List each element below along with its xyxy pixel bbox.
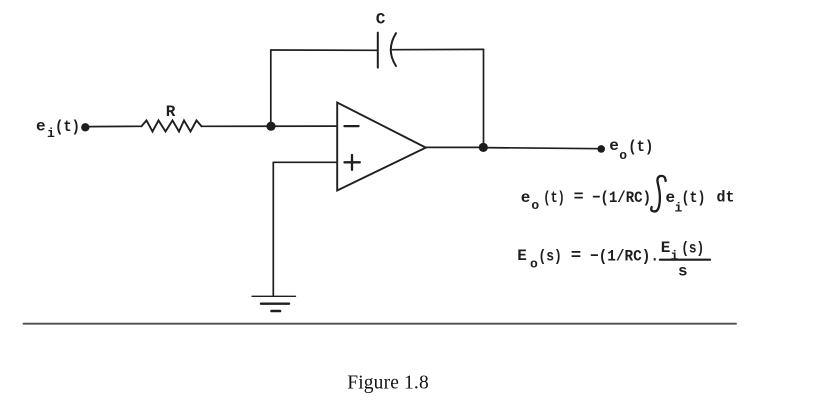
horizontal separator rule xyxy=(24,323,737,325)
svg-text:i: i xyxy=(671,248,679,263)
svg-text:−(1/RC): −(1/RC) xyxy=(592,189,651,207)
svg-text:dt: dt xyxy=(717,189,735,207)
capacitor C1 right plate (curved) xyxy=(391,33,396,66)
svg-text:R: R xyxy=(166,103,176,121)
svg-text:C: C xyxy=(376,11,386,29)
op-amp U1 inverting input marker (minus) xyxy=(345,125,359,127)
op-amp U1 non-inverting input marker (plus) xyxy=(345,155,360,170)
wire: feedback top rail to capacitor xyxy=(271,49,378,51)
wire: input terminal to resistor xyxy=(88,125,142,127)
svg-text:o: o xyxy=(619,148,627,163)
svg-text:=: = xyxy=(574,188,584,206)
svg-text:=: = xyxy=(571,247,582,265)
svg-text:(t): (t) xyxy=(55,118,80,136)
svg-text:s: s xyxy=(678,262,688,280)
equation 1: e_o(t) = -(1/RC) integral of e_i(t) dt xyxy=(521,176,735,215)
node: output terminal e_o xyxy=(597,145,605,153)
wire: non-inverting input to ground branch xyxy=(273,161,337,163)
svg-text:(s): (s) xyxy=(538,247,562,265)
wire: junction up to feedback branch xyxy=(270,50,272,126)
wire: output node to output terminal e_o xyxy=(484,148,601,149)
wire: resistor to op-amp inverting input, through junction xyxy=(202,125,338,127)
svg-text:E: E xyxy=(661,239,671,257)
svg-text:(s): (s) xyxy=(681,239,704,257)
caption: Figure 1.8 xyxy=(347,372,429,393)
svg-text:(t): (t) xyxy=(628,138,653,156)
wire: ground branch down xyxy=(272,162,274,296)
equation 2: E_o(s) = -(1/RC) . E_i(s)/s xyxy=(517,239,710,281)
svg-text:e: e xyxy=(609,137,619,155)
svg-text:o: o xyxy=(530,257,538,272)
node: input terminal e_i xyxy=(81,123,89,131)
wire: feedback down to output node xyxy=(483,49,485,147)
svg-text:e: e xyxy=(521,189,531,207)
node: output junction xyxy=(479,143,488,152)
capacitor C1 left plate xyxy=(377,33,379,68)
label e_i(t) at input terminal xyxy=(36,117,80,141)
svg-text:Figure 1.8: Figure 1.8 xyxy=(347,372,429,393)
svg-text:i: i xyxy=(47,126,55,141)
op-amp U1 xyxy=(337,103,426,191)
label R (value label for resistor) xyxy=(166,103,176,121)
wire: op-amp output to output node xyxy=(426,146,484,148)
label C (value label for capacitor) xyxy=(376,11,386,29)
svg-text:(t): (t) xyxy=(543,189,565,207)
svg-text:e: e xyxy=(36,117,46,135)
svg-text:(t): (t) xyxy=(682,189,706,207)
svg-text:o: o xyxy=(531,198,539,213)
ground symbol xyxy=(252,296,296,311)
resistor R1 xyxy=(142,120,202,131)
wire: capacitor to right feedback corner xyxy=(393,48,484,50)
svg-text:E: E xyxy=(517,247,527,265)
label e_o(t) at output terminal xyxy=(609,137,653,163)
svg-text:−(1/RC).: −(1/RC). xyxy=(590,247,659,265)
node: junction at inverting input xyxy=(266,122,275,131)
